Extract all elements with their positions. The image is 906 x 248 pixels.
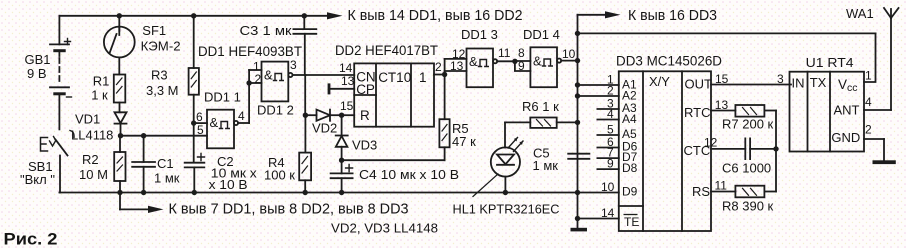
capacitor C1 <box>132 136 155 193</box>
node dot VD2 anode <box>303 113 308 118</box>
svg-text:DD2 HEF4017BT: DD2 HEF4017BT <box>335 43 438 58</box>
svg-text:3: 3 <box>777 72 784 86</box>
wire pin6 <box>194 122 207 124</box>
svg-text:R1: R1 <box>93 74 110 89</box>
svg-text:10 М: 10 М <box>79 167 108 182</box>
svg-text:RTC: RTC <box>684 105 710 120</box>
ground TE <box>577 219 579 228</box>
svg-text:CP: CP <box>356 82 375 97</box>
wire U1 GND pin 2 <box>864 138 884 140</box>
diode VD1 <box>115 112 127 135</box>
svg-text:1 к: 1 к <box>91 88 108 103</box>
svg-text:DD1 2: DD1 2 <box>257 103 294 118</box>
svg-text:C1: C1 <box>157 156 174 171</box>
svg-text:SF1: SF1 <box>142 23 166 38</box>
svg-text:R2: R2 <box>82 152 99 167</box>
wire supply rail to U1 <box>578 32 876 34</box>
node dot R6/trunk <box>575 120 580 125</box>
pin numbers and names <box>196 46 872 229</box>
wire U1 Vcc pin 1 <box>864 33 876 82</box>
node dot top rail at C3 <box>302 13 307 18</box>
svg-text:6: 6 <box>196 110 203 124</box>
svg-text:CT10: CT10 <box>378 70 411 85</box>
svg-text:11: 11 <box>498 46 511 60</box>
power rail texts <box>169 7 718 218</box>
svg-text:DD1 HEF4093BT: DD1 HEF4093BT <box>198 44 302 59</box>
wire trunk to C2 <box>193 123 195 162</box>
svg-text:TE: TE <box>624 215 639 229</box>
svg-text:1: 1 <box>865 69 872 83</box>
svg-text:9 В: 9 В <box>27 66 47 81</box>
resistor R1 <box>114 75 126 113</box>
CP pin tick <box>328 83 331 94</box>
svg-text:2: 2 <box>255 72 262 86</box>
svg-text:5: 5 <box>197 123 204 137</box>
capacitor C2 <box>185 163 205 193</box>
svg-text:LL4118: LL4118 <box>71 128 113 143</box>
svg-text:14: 14 <box>601 206 615 220</box>
op-amp gate DD1.2 <box>262 62 306 102</box>
node dot pin2 A2 <box>575 93 580 98</box>
encoder DD3 <box>619 71 711 231</box>
svg-text:15: 15 <box>715 72 729 86</box>
wire RTC pin 13 <box>711 110 735 112</box>
wire branch arrow 16 DD3 <box>578 14 606 16</box>
svg-text:VD2, VD3 LL4148: VD2, VD3 LL4148 <box>331 221 438 236</box>
wire R5 bottom link <box>342 159 445 161</box>
svg-text:13: 13 <box>341 74 355 88</box>
node dot C1 top <box>141 133 146 138</box>
wire Vcc trunk right <box>577 15 579 219</box>
svg-text:R8 390 к: R8 390 к <box>722 199 774 214</box>
C2 plus sign <box>198 154 205 161</box>
resistor R2 <box>114 136 125 193</box>
switch SB1 <box>41 131 75 193</box>
svg-text:9: 9 <box>518 59 525 73</box>
svg-text:DD1 3: DD1 3 <box>461 27 498 42</box>
wire bottom rail <box>59 192 618 194</box>
resistor R7 <box>735 105 776 117</box>
resistor R5 <box>439 75 449 161</box>
svg-text:1: 1 <box>419 70 427 85</box>
svg-text:R7 200 к: R7 200 к <box>722 117 774 132</box>
svg-text:X/Y: X/Y <box>649 74 670 89</box>
node dot VD2 cathode <box>339 113 344 118</box>
HL1 pointer line <box>473 174 498 197</box>
svg-text:10: 10 <box>601 180 615 194</box>
svg-text:&: & <box>264 68 273 83</box>
node dot VD3/C4/R5 <box>339 158 344 163</box>
svg-text:VD3: VD3 <box>352 138 377 153</box>
wire top rail <box>59 15 327 17</box>
battery GB1 <box>50 16 69 130</box>
antenna WA1 <box>884 8 899 110</box>
svg-text:C3 1 мк: C3 1 мк <box>240 23 292 38</box>
wire DD2 output pin 2 <box>434 74 445 76</box>
wire pin3 stub <box>597 108 618 110</box>
node dot C2 bottom <box>192 190 197 195</box>
svg-text:15: 15 <box>340 99 354 113</box>
svg-text:R3: R3 <box>151 68 168 83</box>
svg-text:DD1 1: DD1 1 <box>204 90 241 105</box>
svg-text:WA1: WA1 <box>846 6 874 21</box>
node dot C6/trunk <box>773 146 778 151</box>
svg-text:х 10 В: х 10 В <box>209 177 248 192</box>
svg-text:47 к: 47 к <box>452 134 476 149</box>
wire OUT pin 15 <box>711 84 791 86</box>
arrow bottom to pin 7 DD1 <box>119 193 121 210</box>
arrow to pin 14 DD1 / 16 DD2 <box>327 12 343 19</box>
svg-text:1 мк: 1 мк <box>154 171 180 186</box>
svg-text:"Вкл ": "Вкл " <box>20 172 55 187</box>
C4 plus sign <box>346 165 353 172</box>
wire trunk C3 to VD2 <box>304 75 306 115</box>
svg-text:13: 13 <box>715 98 729 112</box>
capacitor C4 <box>331 160 353 192</box>
wire pin1 <box>578 84 619 86</box>
svg-text:D9: D9 <box>622 185 638 199</box>
svg-text:100 к: 100 к <box>264 168 295 183</box>
counter DD2 <box>354 63 434 126</box>
wire pin9 stub <box>597 168 618 170</box>
svg-text:8: 8 <box>518 46 525 60</box>
svg-text:К выв 14 DD1, выв 16 DD2: К выв 14 DD1, выв 16 DD2 <box>348 7 523 24</box>
svg-text:C6 1000: C6 1000 <box>722 161 771 176</box>
op-amp gate DD1.1 <box>207 110 249 149</box>
svg-text:GB1: GB1 <box>25 52 51 67</box>
svg-text:R: R <box>360 108 370 123</box>
svg-text:К выв 7 DD1, выв 8 DD2, выв: К выв 7 DD1, выв 8 DD2, выв 8 DD3 <box>169 201 409 218</box>
wire pin4 stub <box>597 119 618 121</box>
svg-text:DD1 4: DD1 4 <box>523 27 560 42</box>
svg-text:1 мк: 1 мк <box>533 158 559 173</box>
svg-text:14: 14 <box>339 61 353 75</box>
node dot R2 bottom <box>117 190 122 195</box>
svg-text:ANT: ANT <box>834 103 860 118</box>
wire U1 ANT pin 4 <box>864 109 891 111</box>
node dot rail/trunk bottom <box>575 190 580 195</box>
svg-text:11: 11 <box>715 179 728 193</box>
node dot R4 bottom <box>303 190 308 195</box>
wire R pin 15 <box>342 114 355 116</box>
wire node line to pin 5 <box>121 135 208 137</box>
svg-text:HL1 KPTR3216EC: HL1 KPTR3216EC <box>453 202 560 217</box>
node dot C1 bottom <box>141 190 146 195</box>
svg-text:IN: IN <box>792 76 805 91</box>
svg-text:4: 4 <box>607 107 614 121</box>
node dot R3/pin6 <box>191 120 196 125</box>
wire TE pin 14 <box>578 218 619 220</box>
node dot top rail at SF1 <box>117 13 122 18</box>
svg-text:&: & <box>533 54 542 69</box>
wire CTC pin 12 <box>711 148 745 150</box>
svg-text:2: 2 <box>865 123 872 137</box>
svg-text:VD2: VD2 <box>312 121 337 136</box>
svg-text:3,3 М: 3,3 М <box>146 83 179 98</box>
node A (VD1/R2/C1/pin5) <box>118 133 123 138</box>
wire CN line <box>306 74 355 76</box>
op-amp gate DD1.3 <box>467 49 515 88</box>
transmitter U1 <box>790 72 865 152</box>
svg-text:OUT: OUT <box>685 77 713 92</box>
diode VD2 <box>305 110 341 121</box>
wire jog to DD1.3 inputs <box>444 59 446 75</box>
svg-text:GND: GND <box>831 130 860 145</box>
svg-text:A4: A4 <box>622 112 637 126</box>
resistor R8 <box>735 186 776 198</box>
ground U1 <box>883 139 885 160</box>
svg-text:КЭМ-2: КЭМ-2 <box>141 39 181 54</box>
wire pin7 stub <box>597 157 618 159</box>
node dot pin1 A1 <box>575 82 580 87</box>
svg-text:C4 10 мк x 10 В: C4 10 мк x 10 В <box>359 167 459 182</box>
wire RTC trunk <box>775 111 777 192</box>
op-amp gate DD1.4 <box>530 47 577 87</box>
svg-text:&: & <box>469 54 478 69</box>
svg-text:DD3 MC145026D: DD3 MC145026D <box>616 54 722 69</box>
svg-text:2: 2 <box>435 60 442 74</box>
svg-text:12: 12 <box>704 136 718 150</box>
node dot trunk/DD1.4 out <box>575 58 580 63</box>
resistor R4 <box>299 115 311 192</box>
svg-text:Рис. 2: Рис. 2 <box>4 230 58 248</box>
svg-text:VD1: VD1 <box>75 112 100 127</box>
diode VD3 <box>336 115 348 160</box>
wire DD1.1 out to DD1.2 inputs <box>248 70 250 123</box>
node dot tie pin2 <box>246 80 251 85</box>
wire CP pin 13 <box>330 88 354 90</box>
node dot DD2 out <box>442 72 447 77</box>
wire RS pin 11 <box>711 191 735 193</box>
node dot rail/trunk <box>575 31 580 36</box>
svg-text:4: 4 <box>865 95 872 109</box>
svg-text:U1 RT4: U1 RT4 <box>806 55 854 70</box>
resistor R6 <box>505 118 578 128</box>
reed switch SF1 <box>104 16 135 75</box>
wire to DD1.4 pins <box>515 60 531 62</box>
capacitor C3 <box>293 16 316 75</box>
LED HL1 <box>491 122 523 192</box>
svg-text:К выв 16 DD3: К выв 16 DD3 <box>628 7 717 24</box>
node dot top rail at R3 <box>191 13 196 18</box>
wire pin2 <box>578 95 619 97</box>
svg-text:13: 13 <box>450 59 464 73</box>
battery plus sign <box>65 39 71 45</box>
battery minus sign <box>67 96 72 98</box>
svg-text:&: & <box>210 115 219 130</box>
capacitor C6 <box>745 138 776 159</box>
svg-text:R6 1 к: R6 1 к <box>522 99 559 114</box>
svg-text:2: 2 <box>607 84 614 98</box>
svg-text:10: 10 <box>562 47 576 61</box>
node dot DD1.4 input tie <box>512 59 517 64</box>
node dot LED bottom <box>503 190 508 195</box>
wire pin6 stub <box>597 147 618 149</box>
resistor R3 <box>189 16 199 123</box>
svg-text:D8: D8 <box>622 161 638 175</box>
wire pin5 stub <box>597 134 618 136</box>
svg-text:3: 3 <box>290 58 297 72</box>
node dot C4 bottom <box>339 190 344 195</box>
node dot TE <box>575 216 580 221</box>
svg-text:TX: TX <box>810 75 827 90</box>
svg-text:RS: RS <box>692 184 710 199</box>
capacitor C5 <box>568 154 589 159</box>
svg-text:9: 9 <box>607 157 614 171</box>
svg-text:4: 4 <box>238 109 245 123</box>
